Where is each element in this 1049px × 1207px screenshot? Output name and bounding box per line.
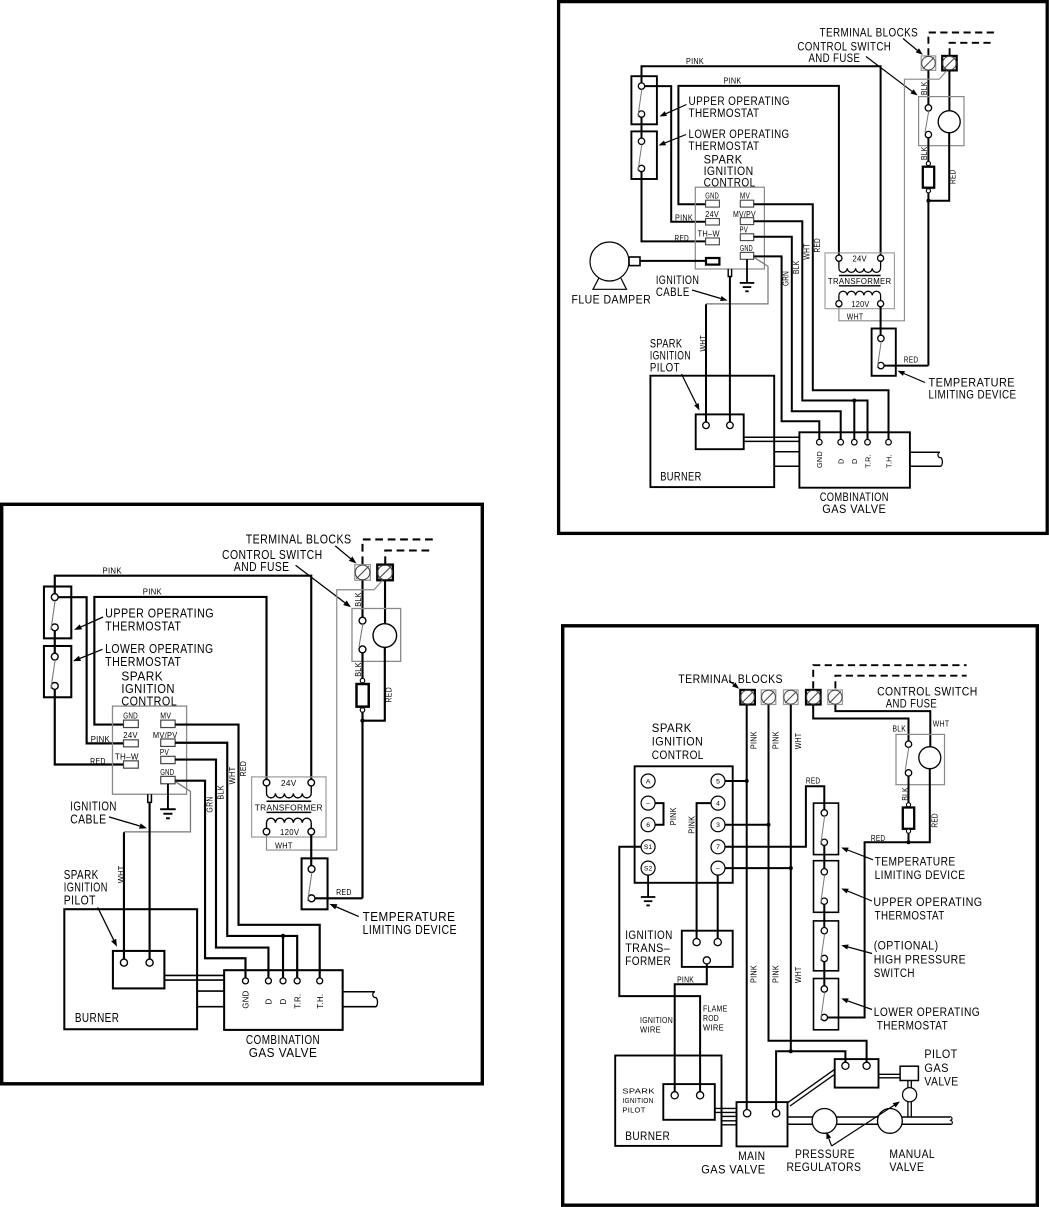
svg-text:4: 4 (716, 801, 720, 808)
label FLUE DAMPER (572, 292, 652, 306)
pilot gas valve body (900, 1066, 918, 1080)
junction dot minus/TB3 (789, 866, 793, 870)
label 120V (852, 300, 870, 309)
junction dot D-terminal branch (852, 399, 856, 403)
svg-text:WIRE: WIRE (640, 1026, 661, 1035)
svg-text:5: 5 (716, 778, 720, 785)
label PINK TB1 upper (750, 731, 759, 749)
svg-text:PINK: PINK (686, 57, 704, 66)
leader arrow to terminal block 1 (729, 681, 739, 689)
wire between thermostats (641, 117, 643, 138)
label IGNITION TRANS-FORMER (625, 928, 673, 968)
label RED at TH-W (675, 234, 690, 243)
upper operating thermostat S1 (631, 76, 657, 124)
svg-text:MAIN: MAIN (738, 1149, 765, 1163)
svg-text:(OPTIONAL): (OPTIONAL) (874, 938, 939, 952)
wire WHT TB5 to switch circle (835, 705, 930, 747)
label PINK TB2 lower (771, 965, 780, 983)
wire PINK TB2 to pilot valve coil (769, 705, 867, 1063)
svg-text:RED: RED (871, 834, 886, 843)
main pressure regulator (812, 1109, 837, 1134)
wire BLK terminal A to switch (927, 71, 929, 105)
svg-text:S2: S2 (644, 866, 653, 873)
pilot terminals (703, 422, 734, 429)
wire RED chain bottom to fuse junction (828, 842, 909, 1017)
label TRANSFORMER (828, 277, 892, 286)
svg-text:PRESSURE: PRESSURE (795, 1147, 855, 1161)
svg-text:RED: RED (949, 170, 958, 185)
wire branch to gas valve D2 (853, 401, 855, 440)
wire ignition cable to pilot (729, 277, 731, 422)
control switch contacts (925, 105, 932, 138)
svg-text:LIMITING DEVICE: LIMITING DEVICE (929, 388, 1017, 402)
pilot terminals (d3) (671, 1092, 704, 1099)
svg-text:D: D (837, 458, 846, 464)
svg-text:BLK: BLK (920, 81, 929, 95)
label LOWER OPERATING THERMOSTAT (689, 127, 790, 153)
svg-text:WHT: WHT (847, 313, 864, 322)
svg-text:S1: S1 (644, 844, 653, 851)
svg-text:TEMPERATURE: TEMPERATURE (875, 854, 956, 868)
junction dot fuse/red (d3) (907, 840, 911, 844)
svg-text:TRANSFORMER: TRANSFORMER (828, 277, 892, 286)
leader arrow to lower thermostat (659, 135, 687, 146)
dashed line to terminal block 5 (835, 676, 966, 689)
wire pin 5 to terminal block 1 (725, 780, 747, 782)
svg-text:GRN: GRN (782, 271, 791, 286)
junction dot pin5/TB1 (745, 779, 749, 783)
label BLK TB4 wire (893, 725, 907, 734)
pin minus (U2 right) (711, 861, 725, 875)
gas valve terminals GND D D T.R. T.H. (817, 439, 892, 445)
combination gas valve box (799, 432, 910, 487)
label WHT TB3 upper (794, 733, 803, 750)
control switch indicator circle (938, 111, 960, 133)
wire temp device to junction wire (884, 365, 928, 367)
transformer T1 outline (825, 253, 894, 309)
pilot valve coil terminals (842, 1062, 870, 1069)
svg-text:WHT: WHT (933, 720, 950, 729)
svg-text:T.H.: T.H. (884, 454, 893, 468)
pilot tube to main valve (715, 1108, 737, 1112)
terminal block 5 (828, 690, 843, 705)
main gas valve box (737, 1102, 788, 1146)
wire WHT TB3 down (790, 705, 792, 1052)
label SPARK IGNITION CONTROL (d3) (652, 721, 704, 762)
svg-text:UPPER OPERATING: UPPER OPERATING (873, 895, 982, 909)
terminal MV (U1 right) (740, 192, 754, 207)
svg-text:REGULATORS: REGULATORS (787, 1160, 862, 1174)
gas valve outlet pipe (910, 452, 943, 466)
svg-text:HIGH PRESSURE: HIGH PRESSURE (874, 953, 966, 967)
leader arrow ignition cable (692, 290, 728, 301)
pin A (U2 left) (641, 774, 655, 788)
control switch box (919, 97, 964, 146)
label TERMINAL BLOCKS (820, 26, 919, 40)
label TEMPERATURE LIMITING DEVICE (929, 376, 1017, 402)
pin label T.H. (884, 454, 893, 468)
svg-text:WHT: WHT (794, 967, 803, 984)
svg-text:GND: GND (740, 244, 753, 253)
label WHT TB3 lower (794, 967, 803, 984)
svg-text:PINK: PINK (675, 213, 693, 222)
svg-text:LOWER OPERATING: LOWER OPERATING (874, 1005, 981, 1019)
svg-text:CABLE: CABLE (656, 285, 690, 299)
dashed line to terminal block 4 (813, 665, 966, 688)
svg-text:D: D (850, 458, 859, 464)
svg-text:−: − (646, 801, 650, 808)
label LOWER OPERATING THERMOSTAT (d3) (874, 1005, 981, 1032)
label MAIN GAS VALVE (701, 1149, 765, 1176)
svg-text:PINK: PINK (750, 731, 759, 749)
label UPPER OPERATING THERMOSTAT (689, 94, 791, 120)
burner tube to main valve (722, 1116, 737, 1124)
dashed line to terminal block B (950, 43, 994, 56)
pin 3 (U2 right) (711, 818, 725, 832)
terminal GND2 (U1 right) (740, 244, 754, 259)
label PINK jumper (669, 807, 678, 825)
pin 6 (U2 left) (641, 818, 655, 832)
wire BLK: PV to gas valve D (754, 237, 841, 439)
fuse F2 (903, 803, 914, 834)
junction dot WHT branch (789, 1049, 793, 1053)
transformer 24V terminals (836, 255, 884, 261)
svg-text:BURNER: BURNER (660, 469, 702, 483)
svg-text:TRANS–: TRANS– (625, 941, 670, 955)
svg-text:AND FUSE: AND FUSE (886, 697, 938, 711)
label BURNER (d3) (625, 1129, 670, 1143)
label PINK TB1 lower (750, 965, 759, 983)
diagram 2: tank wiring without flue damper (reuse) (44, 532, 457, 1060)
wire pin minus to terminal block 3 (725, 867, 791, 869)
main gas valve terminals (743, 1110, 779, 1117)
leader arrow spark ignition pilot (682, 374, 700, 411)
frame diagram 2 (2, 504, 483, 1084)
svg-text:RED: RED (904, 356, 919, 365)
spark ignition control module U1 box (695, 187, 764, 269)
wire RED from switch circle down (928, 133, 949, 201)
wire terminal B to switch circle (948, 71, 950, 111)
label WHT vertical MV/PV wire (802, 243, 811, 260)
terminal GND (U1 left) (705, 192, 719, 207)
ignition transformer terminals (693, 939, 721, 965)
label SPARK IGNITION CONTROL (704, 153, 756, 190)
svg-text:IGNITION: IGNITION (652, 734, 704, 748)
wire WHT gray: transformer 120V to terminal B (839, 71, 947, 321)
wire RED: MV to gas valve T.H. (754, 204, 889, 439)
label SPARK IGNITION PILOT (650, 337, 691, 375)
svg-text:AND FUSE: AND FUSE (809, 51, 861, 65)
spark ignition control box U2 (635, 766, 733, 883)
label GRN vertical wire (782, 271, 791, 286)
high pressure switch (d3) (814, 921, 839, 971)
wire lower thermostat to TH-W terminal (642, 172, 706, 242)
wire PINK transformer to ignition wire (675, 964, 707, 1092)
wire chain 2-3 (823, 904, 825, 927)
label IGNITION WIRE (640, 1016, 673, 1035)
terminal block 2 (761, 690, 776, 705)
ground symbol S2 (641, 875, 656, 905)
jumper PINK between minus and 6 (655, 803, 663, 825)
transformer core (839, 276, 881, 286)
svg-text:PINK: PINK (724, 77, 742, 86)
svg-text:PINK: PINK (771, 965, 780, 983)
svg-text:BLK: BLK (893, 725, 907, 734)
svg-text:3: 3 (716, 822, 720, 829)
pin minus (U2 left) (641, 796, 655, 810)
leader arrow lower thermostat (d3) (841, 998, 872, 1009)
label PINK pin4 wire (688, 815, 697, 833)
label CONTROL SWITCH AND FUSE (797, 40, 891, 66)
svg-text:TERMINAL BLOCKS: TERMINAL BLOCKS (820, 26, 919, 40)
wire chain 3-4 (823, 962, 825, 986)
wire pin minus down to transformer (717, 875, 719, 938)
svg-text:PILOT: PILOT (650, 361, 680, 375)
label WHT pilot wire (699, 335, 708, 352)
pin 5 (U2 right) (711, 774, 725, 788)
svg-text:PINK: PINK (750, 965, 759, 983)
wire PINK net 2: GND terminal to transformer 24V left (678, 86, 839, 255)
spark ignition pilot box (d3) (663, 1084, 715, 1120)
leader arrow temp limiting device (898, 371, 926, 383)
svg-text:GAS: GAS (924, 1061, 949, 1075)
ignition transformer T2 box (682, 931, 733, 967)
spark ignition pilot box (696, 414, 744, 449)
wire chain 1-2 (823, 846, 825, 869)
svg-text:SPARK: SPARK (622, 1087, 655, 1096)
wire flue damper to U1 connector (640, 260, 706, 262)
svg-text:VALVE: VALVE (889, 1160, 924, 1174)
label FLAME ROD WIRE (703, 1005, 728, 1033)
transformer primary coil (839, 261, 881, 272)
frame diagram 3 (563, 626, 1038, 1205)
svg-text:THERMOSTAT: THERMOSTAT (877, 1018, 948, 1032)
svg-text:VALVE: VALVE (924, 1074, 958, 1088)
svg-text:TERMINAL BLOCKS: TERMINAL BLOCKS (678, 672, 783, 686)
wire switch to fuse (d3) (908, 776, 910, 803)
diagonal tube main valve to pilot coil box (788, 1069, 835, 1106)
tube pilot valve down to regulator (908, 1081, 911, 1089)
svg-text:MV: MV (740, 192, 750, 201)
control switch contacts (d3) (905, 741, 912, 776)
label PINK top wire (686, 57, 704, 66)
pilot valve coil box (835, 1059, 879, 1088)
label COMBINATION GAS VALVE (820, 490, 889, 516)
junction dot pin3/TB2 (767, 823, 771, 827)
svg-text:IGNITION: IGNITION (640, 1016, 673, 1025)
svg-text:PINK: PINK (669, 807, 678, 825)
label RED right of fuse (949, 170, 958, 185)
junction dot fuse/red (926, 199, 930, 203)
wire WHT branch to main valve and pilot coil (776, 1051, 845, 1109)
label SPARK IGNITION PILOT (d3) (622, 1087, 655, 1115)
svg-text:RED: RED (675, 234, 690, 243)
ignition cable plug connector (728, 269, 731, 277)
svg-text:GAS VALVE: GAS VALVE (701, 1162, 765, 1176)
svg-text:24V: 24V (852, 254, 867, 263)
label BLK upper (920, 81, 929, 95)
leader arrow high pressure switch (841, 945, 872, 954)
label MANUAL VALVE (889, 1147, 935, 1174)
label BURNER (660, 469, 702, 483)
svg-text:IGNITION: IGNITION (625, 928, 673, 942)
wire pin 4 to ignition transformer (697, 803, 711, 938)
wire PINK TB1 to main gas valve (746, 705, 748, 1110)
terminal block 4 (806, 690, 821, 705)
wire junction down to temperature limiting device (927, 201, 929, 366)
leader arrow to pilot regulator (832, 1102, 900, 1147)
label IGNITION CABLE (656, 273, 699, 299)
flue damper connector block in U1 (706, 258, 719, 265)
svg-text:120V: 120V (852, 300, 870, 309)
svg-text:SPARK: SPARK (652, 721, 692, 735)
svg-text:GND: GND (705, 192, 719, 201)
svg-text:7: 7 (716, 844, 720, 851)
svg-text:PINK: PINK (771, 731, 780, 749)
pilot pressure regulator (903, 1088, 917, 1102)
pin 4 (U2 right) (711, 796, 725, 810)
pin label T.R. (863, 454, 872, 468)
svg-text:PILOT: PILOT (622, 1106, 645, 1115)
svg-text:WIRE: WIRE (703, 1024, 724, 1033)
label PILOT GAS VALVE (924, 1047, 958, 1088)
svg-text:MANUAL: MANUAL (889, 1147, 935, 1161)
svg-text:THERMOSTAT: THERMOSTAT (689, 139, 760, 153)
svg-text:GND: GND (815, 451, 824, 468)
lower operating thermostat S2 (631, 131, 657, 179)
frame diagram 1 (559, 2, 1048, 534)
flue damper motor (590, 242, 640, 289)
tube regulator down to pipe (908, 1102, 911, 1117)
svg-text:CONTROL: CONTROL (652, 748, 704, 762)
burner box (d3) (615, 1056, 721, 1146)
svg-text:A: A (646, 778, 651, 785)
wire pin 3 to terminal block 2 (725, 824, 769, 826)
svg-text:FLUE DAMPER: FLUE DAMPER (572, 292, 652, 306)
control switch box (d3) (896, 734, 945, 784)
svg-text:BLK: BLK (792, 260, 801, 274)
svg-text:RED: RED (813, 238, 822, 253)
terminal 24V (U1 left) (705, 210, 719, 225)
svg-text:PILOT: PILOT (924, 1047, 957, 1061)
svg-text:BLK: BLK (920, 146, 929, 160)
label PRESSURE REGULATORS (787, 1147, 862, 1174)
svg-text:PINK: PINK (677, 976, 694, 985)
wire RED switch circle down (d3) (909, 769, 930, 843)
main gas pipe (788, 1117, 953, 1125)
label PINK wire 2 (724, 77, 742, 86)
label WHT at transformer (847, 313, 864, 322)
svg-text:−: − (716, 866, 720, 873)
wire pin 7 to thermostat chain (725, 786, 824, 847)
svg-text:IGNITION: IGNITION (622, 1096, 653, 1105)
svg-text:WHT: WHT (794, 733, 803, 750)
label 24V (852, 254, 867, 263)
upper operating thermostat (d3) (814, 861, 839, 913)
svg-text:FORMER: FORMER (625, 954, 671, 968)
label RED right of fuse (d3) (930, 813, 939, 828)
terminal block B (942, 56, 957, 71)
wire BLK TB4 to control switch (813, 705, 908, 741)
label BLK below switch (901, 787, 910, 801)
label RED at junction (871, 834, 886, 843)
svg-text:SWITCH: SWITCH (874, 966, 915, 980)
pin label GND (815, 451, 824, 468)
label WHT TB5 wire (933, 720, 950, 729)
lower operating thermostat (d3) (814, 979, 839, 1030)
svg-text:THERMOSTAT: THERMOSTAT (875, 908, 945, 922)
label PINK ignition wire (677, 976, 694, 985)
wire fuse to junction (d3) (908, 833, 910, 842)
leader arrow temp device (d3) (841, 848, 873, 860)
transformer 120V terminals (836, 301, 884, 307)
svg-text:T.R.: T.R. (863, 454, 872, 468)
svg-text:PINK: PINK (688, 815, 697, 833)
svg-text:PV: PV (740, 226, 749, 235)
terminal TH-W (U1 left) (698, 230, 720, 245)
svg-text:LIMITING DEVICE: LIMITING DEVICE (875, 868, 966, 882)
terminal block 3 (784, 690, 799, 705)
wire thermostat to 24V terminal (645, 86, 706, 222)
fuse F1 (923, 161, 934, 193)
terminal MV/PV (U1 right) (733, 210, 756, 225)
label TEMPERATURE LIMITING DEVICE (d3) (875, 854, 966, 882)
wire 120V right to temp limiting device (880, 307, 882, 336)
label BLK vertical PV wire (792, 260, 801, 274)
burner box (650, 376, 774, 487)
tube coil box to pilot valve (879, 1074, 901, 1078)
wire GRN: GND2 to gas valve GND (754, 256, 820, 439)
svg-text:RED: RED (806, 776, 821, 785)
label PINK at 24V terminal (675, 213, 693, 222)
transformer secondary coil (839, 291, 881, 300)
pin S1 (U2 left) (641, 840, 655, 854)
dashed line to terminal block A (928, 33, 994, 56)
svg-text:24V: 24V (705, 210, 719, 219)
label TERMINAL BLOCKS (d3) (678, 672, 783, 686)
burner manifold tube (774, 452, 799, 467)
label UPPER OPERATING THERMOSTAT (d3) (873, 895, 982, 923)
label BLK lower (920, 146, 929, 160)
leader arrow to terminal block (903, 39, 923, 55)
manual valve (878, 1109, 903, 1134)
label RED at temp device (904, 356, 919, 365)
svg-text:BURNER: BURNER (625, 1129, 670, 1143)
svg-text:WHT: WHT (699, 335, 708, 352)
wire PINK net top: thermostat to transformer 24V right (642, 66, 881, 255)
leader arrow to main regulator (826, 1132, 831, 1146)
wire WHT: GND2 to pilot (gray routing) (706, 258, 768, 304)
svg-text:TH–W: TH–W (698, 230, 720, 239)
wire WHT: MV/PV to gas valve T.R. (754, 221, 868, 439)
pin label D2 (850, 458, 859, 464)
label RED pin7 wire (806, 776, 821, 785)
pilot gas tube (744, 437, 799, 441)
svg-text:FLAME: FLAME (703, 1005, 728, 1014)
label RED vertical MV wire (813, 238, 822, 253)
wire S1 to flame rod (619, 847, 700, 1092)
ground symbol at U1 (740, 259, 755, 291)
svg-text:RED: RED (930, 813, 939, 828)
label OPTIONAL HIGH PRESSURE SWITCH (874, 938, 966, 980)
terminal PV (U1 right) (740, 226, 754, 241)
temperature limiting device (d3) (814, 803, 839, 855)
svg-text:WHT: WHT (802, 243, 811, 260)
svg-text:THERMOSTAT: THERMOSTAT (689, 106, 760, 120)
wire BLK switch to fuse (927, 138, 929, 162)
label PINK TB2 upper (771, 731, 780, 749)
label CONTROL SWITCH AND FUSE (d3) (877, 685, 978, 711)
